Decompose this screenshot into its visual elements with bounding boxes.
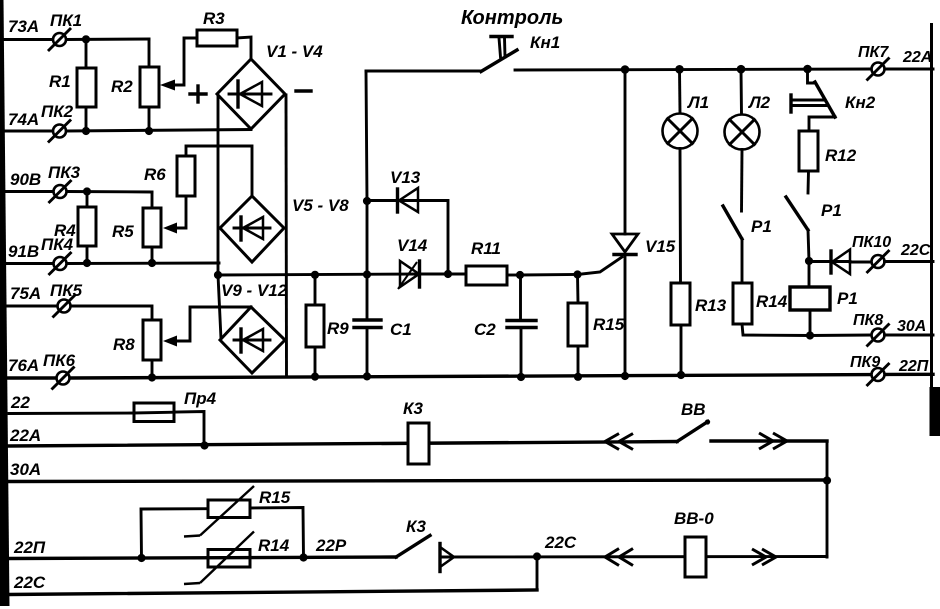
svg-text:Кн1: Кн1	[530, 33, 560, 52]
connector PK1	[49, 11, 82, 50]
wire R11 to gate	[520, 273, 577, 276]
svg-text:75A: 75A	[10, 284, 41, 303]
node junction C2 bottom	[517, 373, 525, 381]
node junction R8 bottom	[148, 373, 156, 381]
wire 74A	[2, 110, 251, 131]
left page border	[0, 0, 10, 606]
node junction R2 bottom	[145, 127, 153, 135]
svg-text:V14: V14	[397, 236, 428, 255]
diode V13	[367, 168, 448, 271]
svg-text:22П: 22П	[898, 358, 929, 375]
connector PK10	[852, 234, 933, 272]
bridge rectifier V1-V4	[217, 42, 323, 129]
svg-text:Контроль: Контроль	[461, 7, 563, 29]
svg-text:V5 - V8: V5 - V8	[292, 196, 349, 215]
wire 91B	[3, 242, 219, 264]
pushbutton Kn1	[366, 7, 563, 72]
node junction BB vertical 30A	[823, 476, 831, 484]
resistor R9	[306, 275, 349, 377]
svg-text:ПК3: ПК3	[48, 163, 81, 182]
resistor R1	[49, 39, 96, 131]
wire 73A	[2, 17, 149, 40]
svg-text:ПК7: ПК7	[858, 44, 889, 61]
wire 30A right to PK8	[810, 334, 871, 337]
switch BB-O chevrons left	[605, 549, 633, 566]
svg-text:Л1: Л1	[686, 93, 709, 112]
svg-text:ПК5: ПК5	[50, 281, 83, 300]
node junction R15b right 22P	[299, 553, 307, 561]
wire vertical A from V1-V4 left vertex	[218, 96, 221, 339]
wire 90B	[3, 170, 152, 192]
wire 22C to BB-O	[440, 555, 827, 558]
switch BB-O chevrons right	[752, 549, 776, 565]
node junction R5 bottom	[148, 259, 156, 267]
node junction bus x367	[363, 372, 371, 380]
potentiometer R2	[111, 39, 159, 131]
node junction diode branch	[805, 257, 813, 265]
plus polarity label	[190, 86, 206, 102]
svg-text:V15: V15	[645, 237, 676, 256]
connector PK5	[50, 281, 83, 317]
svg-text:R12: R12	[825, 146, 857, 165]
relay contact P1 right	[786, 197, 842, 261]
svg-text:74A: 74A	[8, 110, 39, 129]
capacitor C1	[354, 320, 412, 339]
thyristor V15	[612, 70, 676, 377]
node junction coil bottom	[806, 331, 814, 339]
svg-text:R2: R2	[111, 77, 133, 96]
wire 22 with fuse	[9, 393, 204, 446]
resistor R15	[568, 275, 625, 378]
node junction R13 bottom	[677, 371, 685, 379]
fuse Pr4	[134, 389, 217, 422]
svg-text:Пр4: Пр4	[184, 389, 217, 408]
node junction C2 top	[516, 271, 524, 279]
R2 wiper arm wire	[160, 38, 197, 91]
potentiometer R5	[112, 192, 161, 263]
node junction top bus x741	[737, 65, 746, 74]
bridge rectifier V9-V12	[220, 281, 288, 373]
node junction R4 top	[83, 187, 91, 195]
relay coil P1	[790, 261, 858, 336]
node junction R4 bottom	[83, 259, 91, 267]
svg-text:R15: R15	[593, 315, 625, 334]
svg-text:V9 - V12: V9 - V12	[221, 281, 288, 300]
svg-text:22С: 22С	[13, 573, 46, 592]
svg-text:30A: 30A	[897, 318, 926, 335]
svg-text:30A: 30A	[10, 460, 41, 479]
connector PK4	[41, 235, 74, 274]
pushbutton Kn2	[791, 69, 876, 131]
wire 22C row	[9, 557, 537, 595]
svg-text:22С: 22С	[544, 533, 577, 552]
connector PK2	[41, 102, 74, 142]
varistor R14 bottom	[184, 532, 290, 585]
minus polarity label	[296, 89, 311, 92]
connector PK3	[48, 163, 81, 202]
svg-text:R1: R1	[49, 72, 71, 91]
svg-text:P1: P1	[751, 217, 772, 236]
svg-text:R11: R11	[471, 239, 501, 258]
resistor R12	[799, 131, 857, 193]
wire 22A row	[9, 426, 677, 446]
svg-text:R5: R5	[112, 222, 134, 241]
svg-text:22Р: 22Р	[315, 536, 347, 555]
svg-text:91В: 91В	[8, 242, 39, 261]
coil BB-O	[674, 509, 714, 577]
vertical wire from Kn1 corner	[366, 71, 367, 377]
svg-text:ПК1: ПК1	[50, 11, 82, 30]
svg-text:R3: R3	[203, 9, 225, 28]
capacitor C2	[474, 275, 536, 377]
svg-text:ВВ-0: ВВ-0	[674, 509, 714, 528]
svg-text:22П: 22П	[13, 538, 46, 557]
connector PK9	[850, 354, 929, 385]
node junction R15b left	[137, 554, 145, 562]
svg-text:Кн2: Кн2	[845, 93, 876, 112]
svg-text:76A: 76A	[8, 356, 39, 375]
zener diode V14	[397, 236, 428, 289]
node junction V13-V14	[444, 270, 452, 278]
node junction top bus x807	[803, 65, 812, 74]
diode V16 to PK10	[809, 250, 871, 275]
main horizontal line to V14	[218, 274, 420, 275]
resistor R4	[54, 192, 96, 264]
svg-text:22A: 22A	[902, 49, 932, 66]
wire vertical B from V1-V4 right vertex	[285, 95, 288, 376]
resistor R6	[144, 146, 252, 234]
svg-text:P1: P1	[821, 201, 842, 220]
node junction 22C	[533, 552, 541, 560]
resistor R14	[733, 283, 810, 336]
bridge rectifier V5-V8	[220, 196, 349, 262]
resistor R11	[419, 239, 520, 285]
node junction thyristor bus bottom	[621, 372, 629, 380]
contactor coil K3	[403, 399, 429, 464]
svg-text:22A: 22A	[9, 426, 41, 445]
varistor R15 bottom	[141, 486, 304, 558]
svg-text:ПК4: ПК4	[41, 235, 74, 254]
node junction top bus x625	[621, 65, 630, 74]
node junction fuse to 22A	[200, 441, 208, 449]
wire BB corner down	[826, 441, 829, 557]
potentiometer R8	[113, 320, 161, 378]
svg-text:R15: R15	[259, 488, 291, 507]
svg-text:К3: К3	[406, 517, 426, 536]
svg-text:ПК9: ПК9	[850, 354, 880, 371]
top bus wire	[515, 69, 871, 70]
node junction top bus x679	[675, 65, 684, 74]
lamp L2	[725, 69, 771, 149]
svg-text:R14: R14	[756, 292, 788, 311]
top bus wire right of PK7	[884, 68, 933, 71]
svg-text:C1: C1	[390, 320, 412, 339]
svg-text:R9: R9	[327, 319, 349, 338]
node junction on vertical A main line	[214, 271, 222, 279]
node junction V13 branch	[363, 197, 371, 205]
connector PK6	[43, 351, 76, 389]
svg-text:ПК2: ПК2	[41, 102, 74, 121]
svg-text:73A: 73A	[8, 17, 39, 36]
switch BB	[605, 400, 827, 450]
lamp L1	[663, 70, 710, 149]
svg-text:V13: V13	[390, 168, 421, 187]
wire 76A bottom bus	[3, 356, 933, 378]
wire 22P row	[9, 557, 396, 559]
node junction R15 top	[573, 270, 581, 278]
node junction main line x367	[363, 270, 371, 278]
svg-text:ВВ: ВВ	[681, 400, 706, 419]
svg-text:R14: R14	[258, 536, 290, 555]
resistor R3	[197, 9, 251, 59]
resistor R13	[671, 149, 727, 376]
wire 30A row	[9, 460, 827, 482]
relay contact P1 left	[723, 150, 772, 284]
svg-text:90В: 90В	[10, 170, 41, 189]
thyristor gate wire	[578, 257, 623, 275]
svg-text:Л2: Л2	[747, 93, 771, 112]
svg-text:P1: P1	[837, 289, 858, 308]
node junction R15 bottom	[574, 373, 582, 381]
contactor contact K3	[396, 517, 454, 572]
connector PK7	[858, 44, 932, 80]
node junction R1 bottom	[82, 127, 90, 135]
R8 wiper arm wire	[163, 307, 251, 347]
svg-text:R6: R6	[144, 165, 166, 184]
node junction R9 bottom	[311, 373, 319, 381]
svg-text:ПК6: ПК6	[43, 351, 76, 370]
node junction R1 top	[82, 35, 90, 43]
wire 75A	[3, 284, 152, 320]
connector PK8	[853, 312, 933, 346]
svg-text:22: 22	[10, 393, 30, 412]
svg-text:R8: R8	[113, 335, 135, 354]
svg-text:ПК10: ПК10	[852, 234, 891, 251]
svg-text:V1 - V4: V1 - V4	[266, 42, 323, 61]
right page border	[930, 23, 940, 436]
svg-text:C2: C2	[474, 320, 496, 339]
svg-text:ПК8: ПК8	[853, 312, 883, 329]
node junction R9 top	[311, 271, 319, 279]
svg-text:22C: 22C	[900, 242, 931, 259]
svg-text:R13: R13	[695, 296, 727, 315]
svg-text:К3: К3	[403, 399, 423, 418]
